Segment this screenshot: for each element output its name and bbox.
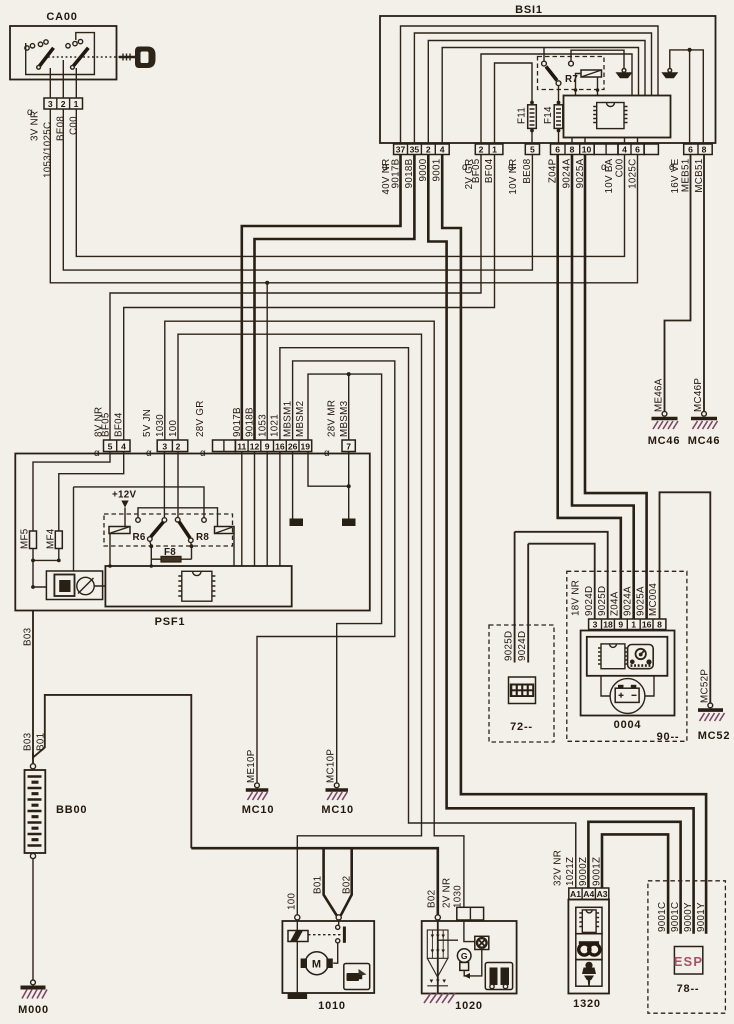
wire 1030 PSF1 pin3 to alternator: [165, 321, 464, 907]
svg-text:8: 8: [657, 620, 662, 630]
starter ground bar: [288, 994, 308, 1000]
svg-text:MC46: MC46: [688, 435, 721, 447]
svg-text:1010: 1010: [318, 1000, 346, 1012]
svg-text:F14: F14: [543, 106, 554, 124]
ground MC46 left: [662, 411, 667, 416]
svg-text:C00: C00: [69, 116, 80, 135]
svg-text:16V VE: 16V VE: [670, 158, 681, 193]
svg-text:BF04: BF04: [114, 412, 125, 437]
PSF1 empty cells: [213, 440, 236, 452]
starter drop B01: [324, 848, 337, 915]
svg-text:R6: R6: [133, 532, 146, 543]
1320 injector cell: [576, 960, 602, 987]
PSF1 relay dashed box: [104, 514, 233, 546]
0004 chip symbol: [598, 644, 628, 669]
svg-text:19: 19: [301, 442, 311, 452]
BSI connector group5 4|6: [618, 144, 644, 155]
BSI internal wire pin2a: [428, 41, 645, 145]
ESP box: [674, 947, 702, 975]
0004 connector 3|18|9|1|16|8: [589, 619, 666, 630]
PSF1 connector 11|12|9|16|26|19: [235, 440, 311, 452]
svg-text:2: 2: [176, 442, 181, 452]
svg-text:1030: 1030: [452, 885, 463, 908]
svg-text:35: 35: [410, 145, 420, 155]
fuse MF4: [55, 531, 62, 549]
svg-text:F11: F11: [517, 107, 528, 124]
svg-text:MC10P: MC10P: [326, 749, 337, 783]
alternator G symbol: [438, 939, 458, 941]
wire MEB51 BSI to ground MC46: [665, 155, 691, 412]
svg-text:10: 10: [582, 145, 592, 155]
svg-text:A1: A1: [570, 889, 581, 899]
BSI connector group4 6|8|10: [551, 144, 595, 155]
0004 display panel: [587, 637, 668, 676]
BSI internal wire pin37: [401, 26, 659, 144]
wire 9001Z A3 arc to ESP: [602, 834, 668, 933]
dashed box 78 ESP: [648, 881, 726, 1013]
svg-text:7: 7: [346, 442, 351, 452]
PSF1 connector 5|4: [104, 440, 131, 452]
BSI microcontroller box: [564, 96, 671, 138]
svg-text:1: 1: [631, 620, 636, 630]
PSF1 pin26 wire to internal ground A: [292, 452, 294, 520]
relay R7 dashed box: [538, 57, 605, 90]
svg-text:1021: 1021: [270, 414, 281, 437]
svg-text:18V NR: 18V NR: [571, 580, 582, 616]
starter motor M: [305, 952, 328, 975]
svg-text:R7: R7: [565, 74, 578, 85]
svg-text:4: 4: [440, 145, 445, 155]
svg-text:4: 4: [622, 145, 627, 155]
svg-text:32V NR: 32V NR: [553, 850, 564, 886]
svg-text:+12V: +12V: [112, 490, 137, 501]
svg-text:A3: A3: [597, 889, 608, 899]
svg-text:B01: B01: [313, 876, 324, 894]
svg-text:3: 3: [593, 620, 598, 630]
svg-text:26: 26: [288, 442, 298, 452]
starter solenoid: [296, 920, 298, 931]
svg-text:B01: B01: [36, 733, 47, 751]
wire 9001 BSI pin4 down to ESP 9001Y: [442, 155, 706, 934]
ignition switch CA00 body: [10, 26, 117, 80]
svg-text:1: 1: [74, 99, 79, 109]
svg-text:C00: C00: [615, 158, 626, 177]
alternator 1020 box: [422, 921, 517, 994]
svg-text:28V GR: 28V GR: [195, 400, 206, 437]
svg-text:M: M: [312, 959, 322, 971]
svg-text:37: 37: [396, 145, 406, 155]
wire C00 CA00 pin1 to BSI pin4g5: [76, 109, 624, 256]
svg-text:9: 9: [618, 620, 623, 630]
ground MC10 right: [334, 783, 339, 788]
BSI internal wire pin4: [442, 48, 638, 145]
svg-text:MC46P: MC46P: [693, 378, 704, 412]
BSI internal wire pin1 to F11: [495, 63, 533, 144]
relay R8 coil: [215, 527, 235, 534]
svg-text:BF04: BF04: [484, 158, 495, 183]
wire 9024D to 72 connector: [527, 544, 529, 663]
BSI connector stubs to cells: [572, 138, 638, 145]
CA00 inner housing: [26, 33, 95, 75]
CA00 switch blade left: [40, 48, 54, 66]
BSI ground 2: [668, 69, 672, 73]
svg-text:BE08: BE08: [56, 116, 67, 141]
svg-text:8: 8: [702, 145, 707, 155]
svg-text:B03: B03: [23, 732, 34, 751]
svg-text:18: 18: [603, 620, 613, 630]
wire 1053 CA00 pin3 to BSI pin6 + PSF1 pin9: [50, 109, 637, 283]
alternator diode bridge: [427, 930, 448, 986]
wire 9017B BSI pin37 to PSF1 pin11: [242, 155, 401, 441]
relay rail: [138, 452, 218, 527]
svg-text:6: 6: [688, 145, 693, 155]
svg-text:BE08: BE08: [522, 158, 533, 183]
svg-text:5V JN: 5V JN: [142, 409, 153, 437]
svg-text:A4: A4: [583, 889, 594, 899]
svg-text:5: 5: [108, 442, 113, 452]
dashed box 72: [489, 625, 554, 742]
ground MC46 right: [702, 411, 707, 416]
ground M000: [21, 986, 46, 990]
CA00 contact circles left: [25, 46, 29, 50]
svg-text:MF4: MF4: [45, 528, 56, 549]
PSF1 chip symbol: [178, 571, 215, 601]
1320 chip cell: [576, 907, 602, 933]
PSF1 pin2 wire into relay: [177, 452, 179, 518]
PSF1 main module box: [105, 566, 291, 607]
dotted key axis: [48, 56, 120, 58]
svg-text:6: 6: [555, 145, 560, 155]
svg-text:78--: 78--: [677, 983, 700, 995]
PSF1 connector 7: [342, 440, 355, 452]
CA00 contact circles right: [66, 44, 70, 48]
wire MBSM1 PSF1 pin26 to ground MC10: [257, 361, 395, 783]
svg-text:B02: B02: [426, 890, 437, 908]
wire B01/B02 battery to starter and alternator: [191, 848, 437, 915]
wire BF05 BSI to PSF1 pin5: [110, 155, 481, 441]
svg-text:1: 1: [492, 145, 497, 155]
svg-text:BSI1: BSI1: [515, 4, 543, 16]
svg-text:9024D: 9024D: [517, 631, 528, 661]
relay R6 coil: [109, 527, 130, 534]
svg-text:6: 6: [635, 145, 640, 155]
svg-text:MF5: MF5: [20, 528, 31, 549]
ground A inside PSF1: [290, 519, 304, 527]
key symbol: [119, 56, 137, 59]
PSF1 pins 11/12/9/16 wires into module: [242, 452, 280, 567]
svg-text:α: α: [94, 448, 100, 459]
node MEB51 junction: [688, 48, 692, 52]
PSF1 pin4 wire to fuse MF4: [59, 452, 124, 532]
svg-text:BB00: BB00: [56, 804, 87, 816]
svg-text:28V MR: 28V MR: [327, 400, 338, 437]
svg-text:3: 3: [162, 442, 167, 452]
svg-text:B03: B03: [23, 627, 34, 646]
svg-text:9018B: 9018B: [245, 407, 256, 437]
R7 blade: [546, 67, 557, 81]
node MBSM3 top junction: [347, 372, 351, 376]
svg-text:G: G: [461, 951, 468, 961]
svg-text:α: α: [200, 448, 206, 459]
wire MCB51 BSI to ground MC46: [703, 155, 705, 412]
svg-text:10V NR: 10V NR: [508, 159, 519, 195]
starter motor 1010 box: [282, 921, 374, 993]
wire MBSM2 PSF1 pin19 loop: [308, 374, 382, 783]
svg-text:1053/1025C: 1053/1025C: [43, 122, 54, 178]
svg-text:Z04A: Z04A: [610, 591, 621, 616]
svg-text:9: 9: [265, 442, 270, 452]
svg-text:2V NR: 2V NR: [441, 878, 452, 908]
PSF1 pin19/pin7 net to internal ground B: [308, 452, 349, 487]
wire 9025A BSI pin10g4 to 0004 pin16: [585, 155, 647, 620]
svg-text:12: 12: [250, 442, 260, 452]
svg-text:CA00: CA00: [46, 11, 77, 23]
1320 box: [568, 900, 609, 994]
svg-text:3V NR: 3V NR: [30, 111, 41, 141]
alternator terminal B02: [435, 915, 440, 920]
svg-text:MC52P: MC52P: [699, 669, 710, 703]
svg-text:90--: 90--: [657, 731, 680, 743]
CA00 pin wires to connector: [50, 60, 76, 98]
relay R6 blade: [151, 522, 164, 537]
svg-text:0004: 0004: [614, 719, 642, 731]
svg-text:9025D: 9025D: [597, 586, 608, 616]
fuse F11: [530, 101, 534, 105]
svg-text:BF05: BF05: [101, 412, 112, 437]
svg-text:9001C: 9001C: [657, 902, 668, 932]
relay R6 contacts: [136, 518, 141, 523]
wire 9025D to 72 connector: [514, 532, 516, 663]
svg-text:72--: 72--: [510, 721, 533, 733]
svg-text:9025D: 9025D: [504, 631, 515, 661]
alternator connector: [457, 907, 484, 920]
svg-text:MC004: MC004: [648, 583, 659, 616]
BSI internal wire pin35: [414, 33, 651, 144]
wire MC004 0004 pin8 to ground MC52: [660, 492, 711, 703]
BSI connector group1 37|35|2|4: [394, 144, 450, 155]
wire 9024D 0004 pin3: [528, 544, 595, 619]
svg-text:MC10: MC10: [242, 804, 275, 816]
BSI ground 1: [622, 69, 626, 73]
svg-text:ME46A: ME46A: [654, 378, 665, 412]
0004 gauge symbol: [628, 645, 654, 669]
alternator internal B wire: [437, 920, 439, 994]
alternator icon box: [485, 963, 512, 990]
svg-text:16: 16: [275, 442, 285, 452]
svg-text:11: 11: [237, 442, 246, 452]
wire battery to ground M000: [32, 859, 34, 980]
alternator ground hatch: [424, 993, 455, 1003]
wire 9018B BSI pin35 to PSF1 pin12: [255, 155, 415, 441]
ground MC52: [708, 703, 713, 708]
R7 coil: [581, 70, 602, 77]
svg-text:2: 2: [61, 99, 66, 109]
PSF1 box: [15, 454, 370, 611]
R7 contact risers: [544, 48, 624, 69]
svg-text:MBSM1: MBSM1: [282, 401, 293, 437]
CA00 switch blade right: [73, 48, 88, 66]
svg-text:α: α: [146, 448, 152, 459]
wire Z04P BSI pin6g4 to 0004 pin9: [558, 155, 621, 620]
wire 9000 BSI pin2 down to ESP 9000Y: [428, 155, 693, 934]
svg-text:9025A: 9025A: [635, 586, 646, 616]
svg-text:9001Z: 9001Z: [591, 857, 602, 886]
72 diagnostic connector symbol: [509, 677, 536, 704]
svg-text:100: 100: [286, 893, 297, 910]
svg-text:10V BA: 10V BA: [604, 158, 615, 193]
BSI empty cell: [644, 144, 658, 155]
svg-text:8: 8: [570, 145, 575, 155]
svg-text:9024A: 9024A: [623, 586, 634, 616]
0004 battery telltale: [601, 676, 654, 696]
svg-text:9024D: 9024D: [584, 586, 595, 616]
BSI chip symbol: [593, 103, 627, 129]
wire BF04 BSI to PSF1 pin4: [124, 155, 495, 441]
starter terminal B: [336, 915, 341, 920]
relay R8 blade: [179, 522, 190, 538]
svg-text:B02: B02: [342, 876, 353, 894]
wire 100 PSF1 pin2 to starter: [178, 334, 422, 915]
wire B03 PSF1 to battery: [33, 611, 191, 849]
svg-text:16: 16: [642, 620, 652, 630]
starter icon box: [344, 964, 370, 990]
svg-text:3: 3: [48, 99, 53, 109]
BSI internal wire pin2b: [481, 54, 632, 144]
PSF1 sub module: [46, 571, 102, 600]
dashed box 90: [567, 571, 687, 741]
svg-text:ESP: ESP: [674, 954, 704, 969]
svg-text:100: 100: [168, 420, 179, 437]
BSI empty cells: [594, 144, 618, 155]
wire 9024A BSI pin8g4 to 0004 pin1: [572, 155, 634, 620]
svg-text:9001C: 9001C: [670, 902, 681, 932]
svg-text:1053: 1053: [257, 414, 268, 437]
ground B inside PSF1: [342, 519, 356, 527]
ground MC10 left: [255, 783, 260, 788]
svg-text:1025C: 1025C: [628, 159, 639, 189]
svg-text:M000: M000: [18, 1004, 49, 1016]
R7 pivot to F14: [558, 86, 560, 103]
svg-text:α: α: [324, 448, 330, 459]
PSF1 connector 3|2: [157, 440, 188, 452]
starter drop B02: [341, 848, 352, 915]
svg-text:4: 4: [121, 442, 126, 452]
R7 contacts: [542, 61, 547, 66]
svg-text:MBSM3: MBSM3: [339, 400, 350, 437]
wire 1021Z into A1: [575, 823, 577, 888]
wire 1021 PSF1 pin16 to 1320 pinA1: [280, 348, 576, 888]
svg-text:1320: 1320: [573, 998, 601, 1010]
starter solenoid contacts: [308, 934, 341, 936]
svg-text:5: 5: [530, 145, 535, 155]
fuse F14: [557, 101, 561, 105]
PSF1 pin5 wire to fuse MF5: [33, 452, 110, 532]
BSI1 box: [380, 16, 716, 143]
BSI connector group6 6|8: [684, 144, 713, 155]
connector 3|2|1: [44, 98, 83, 109]
svg-text:9001Y: 9001Y: [696, 902, 707, 932]
svg-text:MC10: MC10: [321, 804, 354, 816]
svg-text:9017B: 9017B: [232, 407, 243, 437]
wire 9025D 0004 pin18: [515, 532, 608, 619]
instrument cluster 0004 box: [581, 631, 675, 716]
starter terminal 100: [295, 915, 300, 920]
BSI connector group2 2|1: [475, 144, 503, 155]
wire 9000Z A4 arc to ESP: [588, 822, 680, 934]
node 1053/PSF1 branch: [265, 281, 269, 285]
svg-text:MC52: MC52: [698, 730, 731, 742]
svg-text:PSF1: PSF1: [155, 616, 186, 628]
svg-text:9000Y: 9000Y: [683, 902, 694, 932]
svg-text:R8: R8: [196, 532, 209, 543]
1320 coils cell: [576, 934, 602, 960]
BSI connector group3 5: [525, 144, 539, 155]
svg-text:1030: 1030: [155, 414, 166, 437]
wire BE08 CA00 pin2 to BSI pin5: [63, 109, 532, 270]
injection ECU 1320 connector A1|A4|A3: [569, 888, 609, 900]
svg-text:MC46: MC46: [648, 435, 681, 447]
svg-text:2: 2: [479, 145, 484, 155]
svg-text:1020: 1020: [455, 1000, 483, 1012]
R6 pivot to fuse F8: [150, 541, 152, 566]
battery BB00: [30, 764, 35, 769]
alternator warning lamp: [464, 920, 475, 942]
node fuse bus: [33, 559, 59, 561]
relay R8 contacts: [175, 517, 180, 522]
svg-text:1021Z: 1021Z: [565, 857, 576, 886]
fuse MF5: [30, 531, 37, 549]
svg-text:MBSM2: MBSM2: [295, 401, 306, 437]
svg-text:2: 2: [426, 145, 431, 155]
svg-text:9001: 9001: [432, 159, 443, 182]
R8 pivot down: [190, 543, 193, 560]
svg-text:ME10P: ME10P: [246, 749, 257, 783]
